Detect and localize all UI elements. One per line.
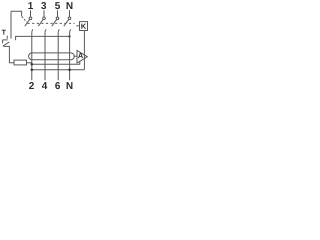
conductor pole2 lower (to 4) [45,29,46,80]
test tap dashed link [22,16,27,22]
conductor pole1 lower (to 2) [32,29,33,80]
switch blade pole 1 [25,20,30,27]
test button lower wire [3,46,14,62]
wire terminal 1 stub [30,10,32,17]
junction dot pole2 rail1 [31,63,34,66]
wire resistor to pole2 [27,62,32,64]
switch contact circle pole 3 [56,17,59,20]
junction dot rail-N [68,35,70,37]
terminal label 5 [55,2,60,9]
relay K box [80,22,88,31]
wire terminal N stub [69,10,71,17]
terminal label 6 [55,82,60,89]
trip linkage dashed line [28,22,75,24]
toroid current transformer [29,53,75,60]
junction dot pole2 rail2 [31,68,34,71]
terminal label 3 [41,2,46,9]
terminal label N (top) [67,2,73,9]
terminal label 2 [29,82,34,89]
neutral sense rail [16,36,70,40]
switch contact circle pole 2 [43,17,46,20]
test button plunger [3,36,8,44]
junction dot N rail2 [68,68,71,71]
conductor N lower [70,29,71,80]
test resistor [14,60,27,65]
switch blade pole 2 [38,20,43,27]
toroid secondary wire [74,55,78,57]
lower rail to relay wire [32,69,85,71]
switch contact circle pole 1 [29,17,32,20]
amplifier label A [78,53,83,58]
switch blade pole N [64,20,69,27]
amplifier output / relay wire [83,31,85,70]
trip linkage end dash at relay [76,25,79,27]
test tap wire from pole 1 [11,11,22,16]
test button blade [3,42,9,46]
terminal label 1 [28,2,33,9]
amplifier triangle [77,50,87,63]
supply rail to amplifier [32,61,80,64]
relay K label [81,24,86,29]
wire terminal 5 stub [57,10,59,17]
terminal label N (bottom) [67,82,73,89]
terminal label 4 [42,82,47,89]
switch blade pole 3 [52,20,57,27]
wire terminal 3 stub [43,10,45,17]
test button T label [2,30,6,35]
conductor pole3 lower (to 6) [58,29,59,80]
switch contact circle pole N [68,17,71,20]
test wire vertical to button [10,11,12,38]
